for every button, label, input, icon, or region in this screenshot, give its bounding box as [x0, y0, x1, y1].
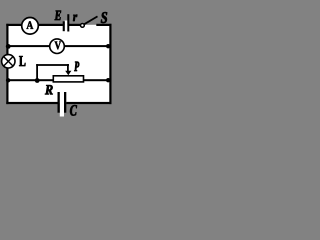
wire: rheostat row left segment — [7, 79, 54, 81]
label S — [101, 12, 107, 23]
wire: bottom-right segment (capacitor to corner) — [66, 102, 111, 104]
wire: voltmeter branch horizontal — [7, 45, 110, 47]
label E — [55, 11, 61, 20]
battery E r: long thin plate (positive) — [67, 14, 69, 31]
wire: battery to switch pivot — [69, 24, 81, 26]
lamp L: bulb circle with cross — [2, 55, 15, 68]
wire: rheostat row right segment — [84, 79, 111, 81]
wire: top-left segment (corner to battery) — [6, 24, 63, 26]
ammeter A — [22, 18, 39, 35]
rheostat slider arrow shaft — [67, 64, 69, 72]
rheostat R: resistor box — [53, 76, 83, 82]
wire: right side vertical — [109, 24, 111, 104]
label C — [70, 105, 77, 116]
label P — [74, 62, 79, 71]
label r — [73, 15, 77, 21]
wire: left side vertical — [6, 24, 8, 104]
node: junction dot wiper branch — [35, 78, 40, 83]
circuit interior white — [7, 25, 110, 103]
voltmeter V — [50, 39, 65, 54]
switch S: pivot contact circle — [81, 24, 85, 28]
label R — [45, 85, 53, 94]
node: junction dot right of voltmeter wire — [106, 44, 110, 48]
capacitor C: white gap pocket — [60, 92, 64, 117]
node: junction dot left rheostat row — [6, 78, 10, 82]
switch S: arm — [84, 16, 97, 24]
battery E r: short thick plate (negative) — [63, 21, 65, 31]
capacitor C: left plate — [58, 92, 60, 113]
wire: top-right segment (switch contact to corner) — [96, 24, 111, 26]
node: junction dot left of voltmeter wire — [6, 44, 11, 49]
background — [0, 0, 117, 129]
wire: wiper branch horizontal — [36, 64, 69, 66]
capacitor C: right plate — [64, 92, 66, 113]
wire: bottom-left segment (corner to capacitor) — [6, 102, 58, 104]
node: junction dot right rheostat row — [106, 78, 110, 82]
battery E r: white gap — [65, 21, 68, 32]
rheostat slider arrowhead — [65, 71, 71, 76]
wire: wiper branch vertical riser — [36, 64, 38, 81]
label L — [19, 56, 25, 66]
